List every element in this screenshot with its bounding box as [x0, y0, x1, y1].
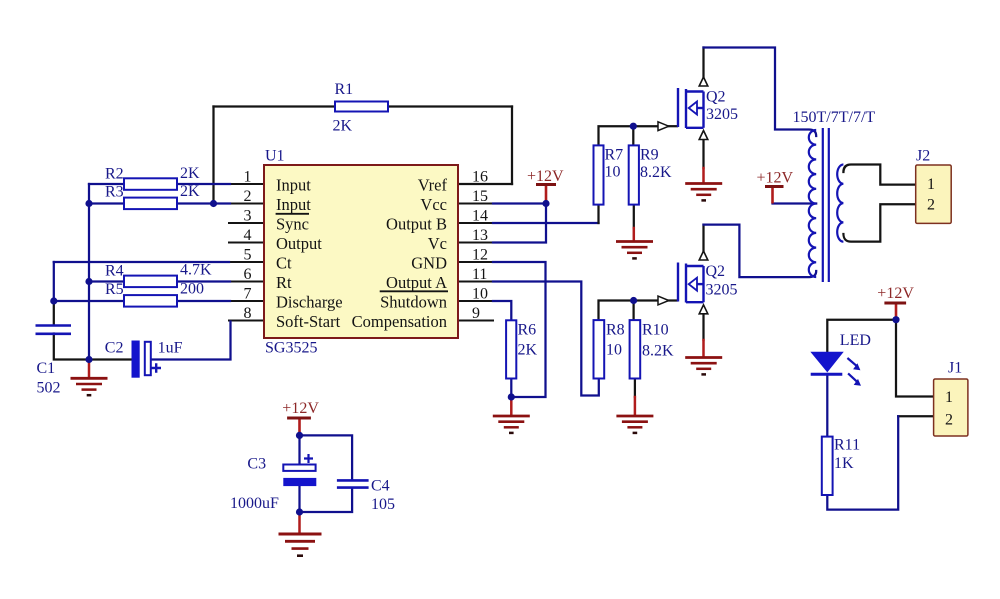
capacitor C4 [337, 480, 369, 487]
svg-text:105: 105 [371, 496, 395, 513]
svg-text:R8: R8 [606, 321, 625, 338]
svg-text:3: 3 [244, 208, 252, 225]
transistor Q2 lower MOSFET 3205 [678, 263, 704, 303]
svg-text:Output A: Output A [386, 273, 447, 292]
wire upper MOSFET source ground stub red [702, 168, 705, 183]
ground under R10 [616, 416, 653, 433]
node C3 top [296, 432, 303, 439]
svg-text:Vcc: Vcc [420, 195, 447, 214]
svg-text:2K: 2K [180, 183, 200, 200]
resistor R7 [594, 145, 604, 204]
svg-text:15: 15 [472, 188, 488, 205]
svg-text:2K: 2K [180, 165, 200, 182]
wire pin 5 Ct to left [54, 261, 229, 263]
svg-text:Rt: Rt [276, 273, 292, 292]
svg-text:3205: 3205 [706, 282, 738, 299]
wire secondary bottom to J2 pin2 [843, 204, 916, 241]
svg-text:R2: R2 [105, 166, 124, 183]
svg-text:150T/7T/7/T: 150T/7T/7/T [793, 109, 876, 126]
svg-text:4.7K: 4.7K [180, 262, 212, 279]
wire pin 16 Vref [458, 183, 512, 185]
wire C2 left lead [89, 358, 132, 360]
svg-text:2K: 2K [333, 118, 353, 135]
Output A underline / Shutdown overline [380, 290, 448, 292]
wire R7 top lead to gate row [599, 126, 659, 145]
svg-text:1uF: 1uF [158, 340, 183, 357]
svg-text:Shutdown: Shutdown [380, 293, 447, 312]
svg-text:Q2: Q2 [706, 89, 726, 106]
svg-text:R6: R6 [518, 321, 537, 338]
wire +12V node down to J1 pin1 [896, 320, 934, 397]
svg-text:Output B: Output B [386, 215, 447, 234]
resistor R3 [124, 198, 177, 210]
wire R6 bottom lead [510, 379, 512, 398]
svg-text:Output: Output [276, 234, 322, 253]
wire pin 14 Output B to R7 [493, 222, 599, 224]
svg-text:6: 6 [244, 266, 252, 283]
wire upper MOSFET source down [702, 140, 704, 169]
wire R10 bottom lead [634, 379, 636, 398]
wire R5 left lead [54, 300, 124, 302]
ground under C1 [71, 378, 108, 395]
svg-text:8.2K: 8.2K [640, 164, 672, 181]
svg-text:Discharge: Discharge [276, 293, 343, 312]
node +12V Vcc/Vc [542, 200, 549, 207]
svg-text:+12V: +12V [527, 168, 564, 185]
wire pin 11 to R8 bottom [493, 282, 599, 396]
svg-text:Sync: Sync [276, 215, 309, 234]
svg-text:2: 2 [244, 188, 252, 205]
svg-text:1: 1 [927, 176, 935, 193]
wire pin 10 to R6 top [493, 301, 511, 320]
wire lower MOSFET source down [702, 314, 704, 340]
wire lower MOSFET source ground stub red [702, 340, 705, 357]
node C3 bottom [296, 508, 303, 515]
resistor R10 [630, 320, 641, 378]
wire C3 top lead [298, 435, 300, 464]
wire C1 ground stub red [88, 360, 91, 378]
wire R1 right horizontal to right vertical [388, 105, 512, 107]
wire R6 ground stub red [510, 397, 513, 416]
power +12V at pin15 [536, 185, 556, 203]
svg-text:1000uF: 1000uF [230, 495, 279, 512]
svg-text:R3: R3 [105, 184, 124, 201]
svg-text:R1: R1 [335, 81, 354, 98]
svg-text:4: 4 [244, 227, 252, 244]
connector J2 [916, 165, 952, 223]
svg-text:1K: 1K [834, 455, 854, 472]
node R1/pin2 [210, 200, 217, 207]
wire R4 left lead [89, 280, 124, 282]
wire left vertical bus x=89 [88, 184, 90, 360]
svg-text:Input: Input [276, 176, 311, 195]
node upper gate R9 [630, 123, 637, 130]
svg-text:9: 9 [472, 305, 480, 322]
resistor R1 [335, 102, 388, 112]
node junction dots [50, 123, 899, 516]
wire J1 pin2 down and across to R11 bottom [827, 416, 898, 509]
op-amp U1 IC body SG3525 [264, 165, 458, 338]
wire C1 top lead [53, 301, 55, 325]
wire R3 left lead [89, 202, 124, 204]
svg-text:R7: R7 [605, 146, 624, 163]
wire vertical from R1 down to pin 16 [511, 107, 513, 185]
ground under upper MOSFET [685, 184, 722, 201]
node R5 left [50, 297, 57, 304]
svg-text:+12V: +12V [877, 285, 914, 302]
SECTION:TEXT [37, 81, 963, 513]
resistor R6 [506, 320, 516, 378]
svg-text:5: 5 [244, 247, 252, 264]
wire lower MOSFET drain up [702, 225, 704, 252]
wire R9 ground stub red [633, 228, 636, 241]
resistor R2 [124, 178, 177, 190]
wire J1 pin2 to left [898, 415, 933, 417]
svg-text:13: 13 [472, 227, 488, 244]
node R3 left [85, 200, 92, 207]
pin 2 underline [276, 213, 309, 215]
wire pin 13 Vc to +12V junction [493, 204, 546, 243]
gate arrow lower [658, 296, 669, 305]
resistor R4 [124, 276, 177, 288]
svg-text:Soft-Start: Soft-Start [276, 312, 341, 331]
wire upper MOSFET drain up [702, 48, 704, 78]
svg-text:Q2: Q2 [706, 263, 726, 280]
svg-text:3205: 3205 [706, 106, 738, 123]
resistor R8 [594, 320, 605, 378]
node C1/C2 ground junction [85, 356, 92, 363]
wire pin 1 from R2 to IC [177, 183, 230, 185]
wire R1 left horizontal [214, 105, 336, 107]
node R4 left [85, 278, 92, 285]
svg-text:1: 1 [945, 389, 953, 406]
svg-text:GND: GND [411, 254, 447, 273]
wire pin 15 Vcc to +12V junction [493, 202, 546, 204]
wire R8 top lead to lower gate row [599, 301, 659, 321]
wire R10 top lead [632, 301, 634, 321]
svg-text:R4: R4 [105, 262, 124, 279]
svg-text:2: 2 [945, 412, 953, 429]
svg-text:C2: C2 [105, 340, 124, 357]
resistor R11 [822, 437, 833, 495]
svg-text:7: 7 [244, 286, 252, 303]
wire C2 right lead to pin 8 [151, 322, 231, 360]
svg-text:10: 10 [605, 164, 621, 181]
transistor Q2 lower drain arrow [699, 251, 708, 260]
ground under lower MOSFET [685, 358, 722, 375]
wire R9 top lead [632, 126, 634, 145]
svg-text:Input: Input [276, 195, 311, 214]
wire transformer center tap [773, 202, 817, 204]
svg-text:R5: R5 [105, 281, 124, 298]
svg-text:Vref: Vref [418, 176, 448, 195]
transistor Q2 upper MOSFET 3205 [678, 88, 704, 128]
svg-text:C1: C1 [37, 360, 56, 377]
svg-text:R10: R10 [642, 321, 669, 338]
wire drain top run to transformer primary top [704, 48, 817, 137]
svg-text:10: 10 [472, 286, 488, 303]
svg-text:Ct: Ct [276, 254, 292, 273]
svg-text:C3: C3 [247, 456, 266, 473]
wire pin 2 from R3 to IC [177, 202, 230, 204]
resistor R9 [629, 145, 639, 204]
wire R1 top net: left vertical from R1 row down to pin2 row [212, 107, 214, 204]
svg-text:J1: J1 [948, 360, 962, 377]
diode LED [811, 352, 861, 386]
svg-text:16: 16 [472, 169, 488, 186]
svg-text:C4: C4 [371, 478, 390, 495]
svg-text:+12V: +12V [757, 170, 794, 187]
wire C4 bottom to C3 bottom [300, 488, 353, 512]
wire lower gate arrow to gate bar [669, 299, 678, 301]
wire lower drain run to transformer primary bottom [704, 225, 817, 278]
wire upper gate arrow to gate bar [669, 125, 678, 127]
gate arrow upper [658, 122, 669, 131]
svg-text:J2: J2 [916, 147, 930, 164]
capacitor C2 polarized [132, 341, 161, 377]
svg-text:10: 10 [606, 341, 622, 358]
wire Ct vertical down to C1 [53, 262, 55, 301]
svg-text:R11: R11 [834, 437, 860, 454]
IC pin stubs left pins 1-8 [228, 184, 264, 321]
node lower gate R10 [630, 297, 637, 304]
connector J1 [934, 379, 968, 436]
wire pin 12 GND net to R6 bottom junction [493, 262, 546, 397]
svg-text:U1: U1 [265, 148, 285, 165]
svg-text:R9: R9 [640, 146, 659, 163]
IC pin stubs right pins 16-9 [458, 184, 494, 321]
capacitor C1 [36, 326, 72, 334]
svg-text:2K: 2K [518, 342, 538, 359]
wire C3 ground stub red [298, 512, 301, 533]
svg-text:1: 1 [244, 169, 252, 186]
svg-text:200: 200 [180, 281, 204, 298]
svg-text:SG3525: SG3525 [265, 340, 317, 357]
svg-text:11: 11 [472, 266, 487, 283]
transistor Q2 upper drain arrow [699, 77, 708, 86]
capacitor C3 electrolytic [283, 454, 316, 486]
wire R10 ground stub red [634, 397, 637, 416]
node R6 bottom [508, 393, 515, 400]
transformer core [823, 128, 829, 282]
wire C3 to C4 top [300, 435, 353, 480]
svg-text:14: 14 [472, 208, 488, 225]
power +12V at LED/J1 [884, 303, 906, 320]
transformer secondary winding [837, 165, 843, 242]
ground under R9 [616, 242, 653, 259]
transformer primary winding [809, 130, 816, 277]
wire secondary top to J2 pin1 [843, 165, 916, 185]
wire R7 bottom lead [597, 205, 599, 223]
svg-text:Vc: Vc [428, 234, 447, 253]
svg-text:Compensation: Compensation [352, 312, 447, 331]
wire +12V to LED/J1 node top horizontal [827, 320, 896, 353]
svg-text:8.2K: 8.2K [642, 342, 674, 359]
resistor R5 [124, 295, 177, 307]
transistor Q2 upper source arrow [699, 131, 708, 140]
ground under C3 [279, 534, 322, 556]
ground under R6 [493, 416, 530, 433]
wire pin 6 from R4 to IC [177, 280, 230, 282]
wire C1 bottom lead to junction [54, 334, 89, 360]
wire R9 bottom lead [633, 205, 635, 228]
wire C3 bottom lead [298, 486, 300, 512]
power +12V at C3 [287, 418, 311, 435]
wire LED cathode to R11 top [826, 374, 828, 437]
wire pin 7 from R5 to IC [177, 300, 230, 302]
power +12V at transformer center tap [765, 187, 784, 204]
svg-text:8: 8 [244, 305, 252, 322]
node +12V LED/J1 [892, 316, 899, 323]
transistor Q2 lower source arrow [699, 305, 708, 314]
svg-text:+12V: +12V [282, 400, 319, 417]
wire R2 left to vertical bus [89, 183, 124, 185]
svg-text:2: 2 [927, 197, 935, 214]
svg-text:12: 12 [472, 247, 488, 264]
svg-text:502: 502 [37, 379, 61, 396]
svg-text:LED: LED [840, 332, 871, 349]
